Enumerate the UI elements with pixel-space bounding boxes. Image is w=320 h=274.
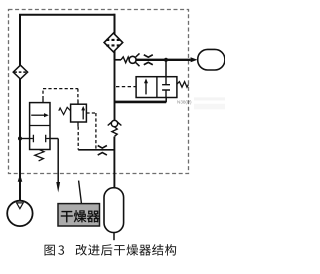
wire: drain line to main vertical <box>78 149 114 151</box>
caption: 图 3 改进后干燥器结构 <box>45 245 55 256</box>
wire: right downcomer into filter F2 <box>114 14 116 60</box>
wire: top header <box>19 14 115 16</box>
filter/dryer F2 (diamond with two dashed lines) <box>104 33 123 52</box>
wire: vertical main from spring to drain tee <box>113 137 115 189</box>
wire: left supply riser from compressor to top <box>19 15 21 201</box>
wire: thick pipe under valve V3 <box>115 101 167 104</box>
callout leader to dryer label <box>79 181 82 204</box>
svg-text:N38(P): N38(P) <box>177 99 192 104</box>
arrow: into reservoir <box>191 57 198 62</box>
wire: stub below regeneration canister <box>113 232 115 240</box>
check valve CV2 (ball in seat, spring below) on main vertical <box>108 120 122 136</box>
arrow: flow up into dryer on left riser <box>18 174 23 182</box>
filter F1 (diamond with dashed line) <box>13 65 27 79</box>
pilot line (dashed) from V2 right port down to drain line <box>86 113 96 150</box>
regeneration canister T2 (vertical capsule) <box>104 188 124 233</box>
wire: drop from header to valve V3 <box>165 60 167 77</box>
node: junction of riser and valve V1 feed <box>18 137 22 141</box>
dryer unit boundary (dashed enclosure) <box>9 10 189 174</box>
wire: purge header to reservoir <box>136 59 191 61</box>
wire: feed to valve V1 <box>20 138 30 140</box>
label box 干燥器 <box>58 204 100 226</box>
valve V1 (2-position purge valve) <box>30 99 50 150</box>
regulator V2 (pilot valve, spring left) <box>71 100 87 126</box>
faint page artifact bands <box>194 97 225 100</box>
restrictor O1 on purge header <box>144 55 153 57</box>
pilot line (dashed) from V1 to regulator V2 <box>43 89 78 101</box>
wire: V1 outlet to exhaust drop <box>50 139 58 183</box>
arrow: exhaust to atmosphere <box>56 182 60 193</box>
pilot line (dashed) to valve V3 <box>116 86 136 88</box>
spring of regulator V2 <box>59 107 71 114</box>
spring of valve V3 <box>177 82 189 88</box>
compressor P1 (circle with inlet triangle) <box>7 201 32 226</box>
check valve CV1 (spring, ball, seat) on purge header <box>115 53 140 66</box>
valve V3 (2/2 shut-off valve) <box>136 77 177 98</box>
restrictor O2 on drain line <box>98 146 107 149</box>
node: junction purge header / valve V3 drop <box>164 58 168 62</box>
spring of valve V1 <box>35 150 44 161</box>
pilot line (dashed) from V2 bottom to drain line <box>77 127 79 150</box>
wire: vertical main below junction to purge check valve <box>114 60 116 120</box>
reservoir tank T1 (horizontal capsule) <box>198 49 225 70</box>
